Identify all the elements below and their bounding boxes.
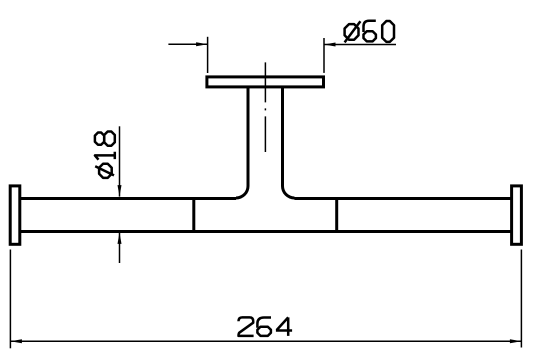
right end cap <box>512 186 522 244</box>
dim Ø60 right extension line <box>323 38 325 73</box>
text Ø18 : diameter symbol circle <box>99 164 112 178</box>
dim Ø60 right arrow shaft <box>324 44 396 46</box>
text Ø60 : digit 6 hook <box>364 21 376 32</box>
dim 264 left arrowhead <box>10 339 22 343</box>
dim Ø18 lower arrow shaft <box>119 232 121 263</box>
text Ø60 : diameter symbol circle <box>345 24 359 40</box>
left end cap <box>10 186 20 244</box>
stem right edge with fillet <box>283 87 295 198</box>
top flange <box>207 77 324 87</box>
text Ø60 : digit 6 bowl <box>364 31 376 41</box>
dim Ø60 left arrow shaft <box>168 43 207 45</box>
text 264 : digit 6 bowl <box>257 327 271 336</box>
dim Ø18 lower arrowhead <box>118 232 122 244</box>
vertical centerline (dash-dot) <box>264 62 266 152</box>
dim 264 right arrowhead <box>510 339 522 343</box>
text Ø60 : digit 0 <box>382 21 394 42</box>
tube top line left segment <box>20 197 237 200</box>
tube weld joint line left <box>192 199 195 232</box>
dim Ø60 left extension line <box>207 37 209 73</box>
dim Ø18 upper arrow shaft <box>119 126 121 196</box>
dim 264 right extension line <box>520 250 522 348</box>
text Ø18 : diameter symbol slash <box>95 166 114 175</box>
tube top line right segment <box>295 197 512 200</box>
text Ø18 : digit 1 <box>95 152 115 160</box>
dim 264 dimension line <box>10 340 521 342</box>
text Ø18 rotated 90 degrees <box>95 132 115 178</box>
dim 264 left extension line <box>9 250 11 349</box>
dim Ø60 right arrowhead <box>324 43 336 47</box>
text Ø18 : digit 8 top lobe <box>95 133 104 145</box>
text 264 : digit 2 <box>239 317 254 336</box>
text Ø60 : diameter symbol slash <box>345 21 361 42</box>
stem left edge with fillet <box>236 87 248 198</box>
dim Ø60 left arrowhead <box>196 42 208 46</box>
text 264 : digit 4 <box>276 317 292 336</box>
tube weld joint line right <box>335 199 338 232</box>
text Ø18 : digit 8 bottom lobe <box>104 132 115 146</box>
dim Ø18 upper arrowhead <box>118 185 122 197</box>
text 264 : digit 6 hook <box>257 318 271 328</box>
tube bottom line <box>20 230 512 233</box>
